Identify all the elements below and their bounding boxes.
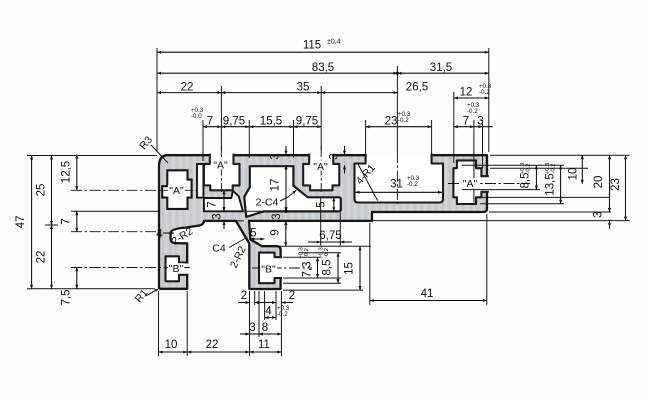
svg-text:41: 41 xyxy=(421,288,434,300)
dim 5 neck xyxy=(250,238,264,240)
svg-text:"A": "A" xyxy=(213,160,228,172)
svg-text:31: 31 xyxy=(390,179,403,191)
svg-text:"A": "A" xyxy=(169,185,184,197)
dim 7right xyxy=(454,126,474,128)
dim 8 bottom xyxy=(259,333,281,335)
svg-text:7,5: 7,5 xyxy=(61,290,73,306)
dim 25 xyxy=(51,156,53,226)
ext for B middle dims xyxy=(262,245,371,247)
svg-text:8: 8 xyxy=(262,322,268,334)
svg-text:10: 10 xyxy=(165,339,178,351)
svg-text:7: 7 xyxy=(207,115,213,127)
svg-text:-0.2: -0.2 xyxy=(526,164,532,174)
junction dot 17-dim xyxy=(284,210,287,213)
svg-text:-0.2: -0.2 xyxy=(304,248,310,258)
svg-text:7,3: 7,3 xyxy=(302,262,314,278)
dim 3 bottom xyxy=(240,333,250,335)
svg-text:12: 12 xyxy=(460,87,473,99)
dim 2 left xyxy=(238,302,250,304)
svg-text:10: 10 xyxy=(568,168,580,181)
svg-text:9,75: 9,75 xyxy=(223,115,245,127)
svg-text:4: 4 xyxy=(265,306,272,318)
dim 10 bottom xyxy=(159,351,188,353)
dim 41 xyxy=(370,300,487,302)
dim 11 bottom xyxy=(250,351,282,353)
dim 3 small top A2 xyxy=(285,146,287,155)
svg-text:R1: R1 xyxy=(133,287,151,305)
dim 9.75 xyxy=(221,126,249,128)
slot A3 (opens up) xyxy=(303,154,339,191)
cavity A left cross xyxy=(162,170,191,209)
leader C4 xyxy=(229,238,246,248)
svg-text:3: 3 xyxy=(212,213,224,219)
svg-text:5: 5 xyxy=(250,228,256,240)
svg-text:20: 20 xyxy=(593,176,605,189)
leader R3 xyxy=(151,145,168,163)
top texts xyxy=(181,39,484,128)
svg-text:±0.4: ±0.4 xyxy=(327,39,341,46)
svg-text:7: 7 xyxy=(61,218,73,224)
dim 47 xyxy=(31,156,33,289)
dim 9 xyxy=(285,221,287,246)
svg-text:13,5: 13,5 xyxy=(545,173,557,195)
dim 6.75 xyxy=(308,241,321,243)
dim 83.5 xyxy=(157,72,397,74)
svg-text:R3: R3 xyxy=(137,134,155,152)
dim 22v xyxy=(51,225,53,289)
dim 4 bottom xyxy=(265,317,276,319)
svg-text:-0.2: -0.2 xyxy=(277,311,288,318)
middle area dims xyxy=(71,198,371,290)
dim 8.5 right xyxy=(535,165,537,189)
svg-text:"B": "B" xyxy=(261,264,276,276)
dim 9.75b xyxy=(294,126,322,128)
svg-text:C4: C4 xyxy=(212,243,226,255)
profile body main silhouette xyxy=(159,155,487,289)
svg-text:22: 22 xyxy=(36,251,48,264)
dim 23v xyxy=(625,155,627,220)
top extension lines xyxy=(156,48,158,152)
svg-text:3: 3 xyxy=(593,211,605,217)
dim 10 xyxy=(581,155,583,184)
svg-text:"B": "B" xyxy=(169,263,184,275)
svg-text:8,5: 8,5 xyxy=(322,260,334,276)
leader 4-R1 xyxy=(358,164,378,201)
svg-text:"A": "A" xyxy=(463,178,478,190)
dim 3right small xyxy=(474,126,483,128)
svg-text:15,5: 15,5 xyxy=(260,115,282,127)
svg-text:-0.2: -0.2 xyxy=(467,108,478,115)
ext web top level left xyxy=(71,210,158,212)
dim 13.5 xyxy=(560,165,562,204)
dim 7.5 xyxy=(76,267,78,289)
right side ext lines xyxy=(373,155,630,220)
dim 3 right small xyxy=(609,203,611,212)
svg-text:3: 3 xyxy=(271,213,283,219)
svg-text:31,5: 31,5 xyxy=(430,62,452,74)
dim 8.5 mid xyxy=(337,253,339,283)
dim 3 small top A3 xyxy=(344,146,346,155)
dim 31.5 xyxy=(397,72,488,74)
svg-text:23: 23 xyxy=(385,115,398,127)
svg-text:-0.2: -0.2 xyxy=(398,117,409,124)
svg-text:-0.0: -0.0 xyxy=(191,113,202,120)
dim 7v xyxy=(76,211,78,231)
slot B left (opens right) xyxy=(166,256,189,281)
svg-text:2: 2 xyxy=(241,290,247,302)
dim 12.5 xyxy=(76,155,78,191)
dim 15 xyxy=(359,246,361,290)
svg-text:"A": "A" xyxy=(313,161,328,173)
dim 20 xyxy=(609,155,611,212)
dim 22 bottom xyxy=(187,351,249,353)
dim 2 right xyxy=(265,302,276,304)
svg-text:3: 3 xyxy=(329,153,341,159)
svg-text:7: 7 xyxy=(463,115,469,127)
ext for 6.75 xyxy=(320,198,322,246)
svg-text:4: 4 xyxy=(156,229,163,241)
svg-text:2: 2 xyxy=(289,290,295,302)
dim 23 xyxy=(366,126,432,128)
svg-text:17: 17 xyxy=(270,179,282,192)
slot A4 (opens right) xyxy=(453,160,488,204)
svg-text:9: 9 xyxy=(269,229,281,235)
big 31mm slot (opens up) xyxy=(355,154,444,203)
slot A2 (opens up) xyxy=(204,154,240,191)
svg-text:2-R2: 2-R2 xyxy=(228,244,249,270)
dim 22 xyxy=(157,92,221,94)
dim 7.3 xyxy=(317,257,319,278)
svg-text:47: 47 xyxy=(15,216,27,229)
leader R1 xyxy=(146,289,159,296)
centerlines dash-dot xyxy=(71,146,530,268)
svg-text:3: 3 xyxy=(270,153,282,159)
dim 4 left wall arrow xyxy=(163,232,174,234)
svg-text:35: 35 xyxy=(297,81,310,93)
leader 2-C4 xyxy=(280,190,296,201)
svg-text:-0.2: -0.2 xyxy=(407,181,418,188)
dim 115 xyxy=(157,51,489,53)
radius / chamfer labels xyxy=(133,134,378,305)
svg-text:15: 15 xyxy=(344,262,356,275)
svg-text:83,5: 83,5 xyxy=(312,62,334,74)
svg-text:11: 11 xyxy=(258,339,270,351)
labels A/B xyxy=(169,160,478,276)
svg-text:3: 3 xyxy=(477,115,483,127)
svg-text:26,5: 26,5 xyxy=(406,81,428,93)
slot B middle (opens right) xyxy=(259,253,282,284)
svg-text:23: 23 xyxy=(610,178,622,191)
svg-text:-0.2: -0.2 xyxy=(479,89,490,96)
big under-rail void between A2 and A3 walls (white) xyxy=(244,166,341,217)
dim 3 mid left xyxy=(223,204,225,212)
svg-text:22: 22 xyxy=(181,81,194,93)
svg-text:22: 22 xyxy=(206,339,219,351)
dim 3 mid web xyxy=(285,204,287,212)
svg-text:12,5: 12,5 xyxy=(61,161,73,183)
dim 26.5 xyxy=(321,92,397,94)
dim 7 mid xyxy=(223,190,225,211)
dim 7 row xyxy=(203,126,221,128)
left side xyxy=(27,156,157,289)
svg-text:6,75: 6,75 xyxy=(319,230,341,242)
dim 15.5 xyxy=(249,126,293,128)
dim 17 xyxy=(285,165,287,211)
svg-text:115: 115 xyxy=(303,40,321,52)
svg-text:2-C4: 2-C4 xyxy=(256,197,279,209)
svg-text:7: 7 xyxy=(207,201,219,207)
svg-text:5: 5 xyxy=(316,201,328,207)
svg-text:-0.2: -0.2 xyxy=(324,248,330,258)
dim 31 slot xyxy=(356,191,443,193)
svg-text:-0.2: -0.2 xyxy=(551,164,557,174)
channel slot left of A2 xyxy=(197,164,203,198)
dim 12 xyxy=(454,97,489,99)
svg-text:25: 25 xyxy=(36,184,48,197)
small void under A2 wall (white) xyxy=(204,191,243,212)
bottom dims xyxy=(159,214,487,356)
dim 35 xyxy=(221,92,321,94)
svg-text:9,75: 9,75 xyxy=(296,115,318,127)
svg-text:3: 3 xyxy=(249,322,255,334)
dim 5 slot height xyxy=(333,197,335,211)
